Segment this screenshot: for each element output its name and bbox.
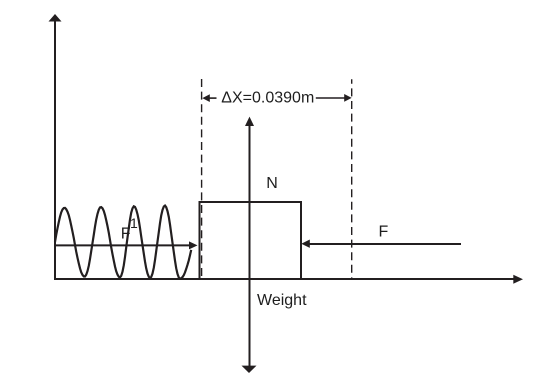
svg-text:N: N <box>266 175 278 192</box>
svg-text:ΔX=0.0390m: ΔX=0.0390m <box>221 89 314 106</box>
dashed line left <box>201 79 203 279</box>
x-axis <box>54 278 514 280</box>
dim arrow right head <box>344 94 352 102</box>
F' arrowhead <box>189 241 198 249</box>
y-axis arrowhead <box>49 14 62 22</box>
Weight arrowhead <box>242 366 257 373</box>
x-axis arrowhead <box>513 275 523 284</box>
dashed line right <box>351 79 353 279</box>
spring <box>55 206 191 279</box>
block <box>200 202 302 279</box>
N arrowhead <box>245 117 254 126</box>
wire F' arrow line <box>55 244 190 246</box>
dim arrow left head <box>202 94 210 102</box>
svg-text:F: F <box>379 224 389 241</box>
svg-text:Weight: Weight <box>257 292 307 309</box>
dim arrow right line <box>316 97 345 99</box>
wire F arrow line <box>309 243 461 245</box>
wire N-Weight line <box>249 124 251 367</box>
dim arrow left line <box>210 97 217 99</box>
F arrowhead <box>301 240 310 248</box>
y-axis <box>54 21 56 280</box>
svg-text:1: 1 <box>130 215 138 231</box>
